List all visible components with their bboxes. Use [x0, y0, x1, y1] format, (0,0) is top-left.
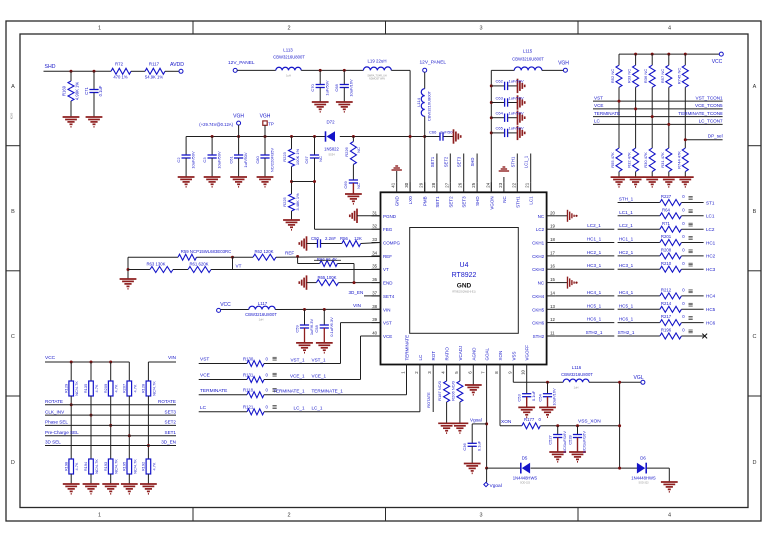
svg-text:Vgoal: Vgoal [470, 418, 482, 423]
svg-text:NC/220F/35V: NC/220F/35V [269, 148, 274, 173]
svg-text:26: 26 [458, 182, 463, 187]
svg-text:R121: R121 [243, 405, 254, 410]
svg-text:VCE_1: VCE_1 [312, 373, 327, 378]
svg-text:C54: C54 [537, 394, 542, 402]
svg-text:NC/1uF/16V: NC/1uF/16V [582, 431, 587, 453]
svg-text:NC: NC [356, 147, 361, 153]
svg-text:R210: R210 [661, 261, 672, 266]
svg-text:LC: LC [594, 119, 601, 124]
svg-text:R55 47K: R55 47K [610, 152, 615, 168]
svg-text:CLK_INV: CLK_INV [45, 409, 65, 414]
svg-text:REF: REF [285, 251, 294, 256]
svg-text:CKH6: CKH6 [532, 321, 545, 326]
svg-text:2.2nF: 2.2nF [325, 236, 336, 241]
svg-text:C70: C70 [310, 84, 315, 92]
svg-text:CBW3216U800T: CBW3216U800T [427, 90, 432, 121]
svg-text:PGND: PGND [383, 214, 397, 219]
svg-text:R196: R196 [661, 328, 672, 333]
svg-text:B: B [753, 209, 757, 215]
svg-text:VSS: VSS [511, 351, 516, 360]
svg-text:LC2: LC2 [536, 227, 545, 232]
svg-text:R225: R225 [282, 196, 287, 206]
svg-text:TP: TP [268, 121, 274, 126]
svg-text:NC/4.7K: NC/4.7K [114, 459, 119, 474]
svg-text:C63: C63 [496, 95, 504, 100]
svg-text:30: 30 [404, 182, 409, 187]
svg-text:R117: R117 [149, 62, 160, 67]
svg-text:1uF/50V: 1uF/50V [324, 80, 329, 95]
svg-text:GOAL: GOAL [485, 347, 490, 360]
svg-text:TERMINATE: TERMINATE [405, 335, 410, 361]
svg-text:1uF/50V: 1uF/50V [509, 95, 524, 100]
svg-text:R128: R128 [141, 384, 146, 393]
svg-text:R169: R169 [62, 85, 67, 96]
svg-text:CKH2: CKH2 [532, 254, 545, 259]
svg-text:27: 27 [444, 182, 449, 187]
svg-text:D72: D72 [326, 120, 335, 125]
svg-text:C: C [753, 334, 757, 340]
svg-text:12: 12 [550, 317, 555, 322]
svg-text:4.99K 1%: 4.99K 1% [75, 82, 80, 100]
svg-text:Phase SEL: Phase SEL [45, 420, 68, 425]
svg-text:VGH: VGH [260, 114, 271, 120]
svg-text:LC1: LC1 [706, 214, 715, 219]
svg-text:0.1uF: 0.1uF [98, 85, 103, 96]
svg-text:HC5: HC5 [706, 307, 716, 312]
svg-text:28: 28 [431, 182, 436, 187]
svg-text:LC2: LC2 [706, 227, 715, 232]
svg-text:VST_1: VST_1 [290, 357, 304, 362]
svg-text:4: 4 [668, 513, 671, 519]
svg-text:23: 23 [498, 182, 503, 187]
svg-text:STH_1: STH_1 [619, 197, 634, 202]
svg-text:DP_sel: DP_sel [708, 134, 723, 139]
svg-text:C3: C3 [202, 157, 207, 163]
svg-text:C80: C80 [255, 156, 260, 164]
svg-text:1uF/50: 1uF/50 [440, 130, 453, 135]
svg-text:R30 47K: R30 47K [643, 152, 648, 168]
svg-text:SET3: SET3 [165, 409, 177, 414]
svg-text:R56: R56 [340, 236, 348, 241]
svg-text:VST: VST [200, 357, 209, 363]
svg-text:R744 47K: R744 47K [676, 151, 681, 169]
svg-text:SHD: SHD [45, 64, 56, 70]
svg-text:LC2_1: LC2_1 [587, 223, 601, 228]
svg-text:VGOFF: VGOFF [525, 345, 530, 361]
svg-text:C61: C61 [229, 156, 234, 164]
svg-text:STH2_1: STH2_1 [586, 330, 603, 335]
svg-text:CKH5: CKH5 [532, 307, 545, 312]
svg-text:HC6: HC6 [706, 320, 716, 325]
svg-text:18: 18 [550, 237, 555, 242]
svg-text:VST_TCON1: VST_TCON1 [696, 95, 724, 100]
svg-text:R59 NCP15WL683E03RC: R59 NCP15WL683E03RC [181, 249, 231, 254]
svg-text:40: 40 [372, 331, 377, 336]
svg-text:HC2_1: HC2_1 [619, 250, 634, 255]
svg-text:3: 3 [479, 513, 482, 519]
svg-text:VGON: VGON [489, 196, 494, 209]
svg-text:LC: LC [418, 354, 423, 361]
svg-text:SET1: SET1 [165, 430, 177, 435]
svg-text:39: 39 [372, 317, 377, 322]
svg-text:C53: C53 [517, 394, 522, 402]
svg-text:R745 NC: R745 NC [676, 68, 681, 85]
svg-text:VCE: VCE [594, 103, 603, 108]
svg-text:C50: C50 [311, 236, 319, 241]
svg-text:NC: NC [502, 196, 507, 203]
svg-text:NC/4.7K: NC/4.7K [132, 459, 137, 474]
svg-text:25: 25 [471, 182, 476, 187]
svg-text:CBW3216U800T: CBW3216U800T [512, 57, 544, 62]
svg-text:HC2: HC2 [706, 254, 716, 259]
svg-text:R187 NC/0: R187 NC/0 [437, 380, 442, 401]
svg-text:12V_PANEL: 12V_PANEL [228, 60, 255, 66]
svg-text:R212: R212 [661, 288, 672, 293]
svg-text:R207: R207 [122, 384, 127, 393]
svg-text:1uH: 1uH [574, 386, 579, 390]
svg-text:10uF/16V: 10uF/16V [552, 388, 557, 406]
svg-text:D: D [753, 460, 757, 466]
svg-text:HC2_1: HC2_1 [587, 250, 602, 255]
svg-text:STH1: STH1 [510, 156, 515, 167]
svg-text:R71: R71 [662, 221, 670, 226]
svg-text:XON: XON [498, 351, 503, 361]
svg-text:ROT: ROT [431, 351, 436, 361]
svg-text:CBW3216U800T: CBW3216U800T [245, 312, 277, 317]
svg-text:15: 15 [550, 277, 555, 282]
svg-text:HC4: HC4 [706, 294, 716, 299]
svg-text:C66: C66 [429, 130, 437, 135]
svg-text:R31 47K: R31 47K [660, 152, 665, 168]
svg-text:470 1%: 470 1% [113, 75, 127, 80]
svg-text:C69: C69 [343, 181, 348, 189]
svg-text:SET1: SET1 [435, 196, 440, 208]
svg-text:10: 10 [521, 370, 526, 375]
svg-text:R135: R135 [83, 384, 88, 393]
svg-text:COMPG: COMPG [383, 241, 401, 246]
svg-text:L19 22uH: L19 22uH [367, 59, 386, 64]
svg-text:AVDD: AVDD [170, 62, 184, 68]
svg-text:C65: C65 [496, 126, 504, 131]
svg-text:PMB: PMB [423, 196, 428, 206]
svg-text:VIN: VIN [168, 355, 177, 361]
svg-text:NC/4.7K: NC/4.7K [94, 459, 99, 474]
svg-text:VT: VT [236, 264, 242, 269]
svg-text:R65 100K: R65 100K [317, 275, 336, 280]
svg-text:LC: LC [200, 405, 207, 411]
svg-text:C2: C2 [176, 157, 181, 163]
svg-text:CBW3216U800T: CBW3216U800T [273, 55, 305, 60]
svg-text:HC4_1: HC4_1 [619, 290, 634, 295]
svg-text:LC1_1: LC1_1 [619, 210, 633, 215]
svg-text:3D_EN: 3D_EN [349, 290, 364, 295]
svg-text:SET2: SET2 [443, 156, 448, 167]
svg-text:R62 120K: R62 120K [254, 249, 273, 254]
svg-text:R130: R130 [243, 356, 254, 361]
svg-text:41: 41 [391, 182, 396, 187]
svg-text:VT: VT [383, 267, 389, 272]
svg-text:VSS_XON: VSS_XON [578, 419, 601, 425]
svg-text:LC_1: LC_1 [312, 406, 323, 411]
svg-text:STH2: STH2 [533, 334, 545, 339]
svg-text:0.1uF/6.3V: 0.1uF/6.3V [329, 317, 334, 337]
svg-text:35: 35 [372, 264, 377, 269]
svg-text:R227: R227 [661, 194, 672, 199]
svg-text:R66 66.4K: R66 66.4K [317, 257, 337, 262]
svg-text:ST1: ST1 [706, 200, 715, 205]
svg-text:TERMINATE_1: TERMINATE_1 [312, 389, 344, 394]
svg-text:R193: R193 [103, 462, 108, 471]
svg-text:0.1uF: 0.1uF [531, 390, 536, 401]
svg-text:VIN: VIN [383, 307, 391, 312]
svg-text:NC: NC [538, 281, 545, 286]
svg-text:C: C [11, 334, 15, 340]
svg-text:C528: C528 [567, 434, 572, 444]
svg-text:2: 2 [287, 26, 290, 32]
svg-text:C71: C71 [84, 86, 89, 94]
svg-text:VCE_TCON5: VCE_TCON5 [695, 103, 723, 108]
svg-text:L117: L117 [258, 301, 268, 306]
svg-text:10uF/50V: 10uF/50V [216, 151, 221, 169]
svg-text:AGND: AGND [471, 347, 476, 361]
svg-text:10uF/50V: 10uF/50V [190, 151, 195, 169]
svg-text:R217: R217 [661, 314, 672, 319]
svg-text:CKH1: CKH1 [532, 241, 545, 246]
svg-text:20: 20 [550, 210, 555, 215]
svg-text:1: 1 [98, 513, 101, 519]
svg-text:C59: C59 [294, 325, 299, 333]
svg-text:VCE: VCE [200, 373, 210, 379]
svg-text:1N4448HWS: 1N4448HWS [631, 476, 656, 481]
svg-text:RATIO: RATIO [445, 347, 450, 361]
svg-text:54.9K 1%: 54.9K 1% [145, 75, 163, 80]
svg-text:R223: R223 [282, 151, 287, 161]
svg-text:1uF/50V: 1uF/50V [243, 152, 248, 167]
svg-text:Vgoal: Vgoal [490, 483, 502, 489]
svg-text:3.48K 1%: 3.48K 1% [295, 193, 300, 211]
svg-text:LC1: LC1 [529, 196, 534, 205]
svg-text:HC4_1: HC4_1 [587, 290, 602, 295]
svg-text:B: B [11, 209, 15, 215]
svg-text:LC_TCON7: LC_TCON7 [699, 119, 723, 124]
svg-text:R52 NC: R52 NC [610, 69, 615, 83]
svg-text:R33 NC: R33 NC [627, 69, 632, 83]
svg-text:D: D [11, 460, 15, 466]
svg-text:SOD-323: SOD-323 [520, 481, 531, 484]
svg-text:RT8922GQW(5-6-E1): RT8922GQW(5-6-E1) [452, 291, 475, 294]
svg-text:SET3: SET3 [457, 156, 462, 167]
svg-text:SOD-323: SOD-323 [639, 481, 650, 484]
svg-text:R226: R226 [344, 146, 349, 156]
svg-text:TERMINATE: TERMINATE [200, 388, 227, 394]
svg-text:33: 33 [372, 237, 377, 242]
svg-text:HC3_1: HC3_1 [619, 263, 634, 268]
svg-text:ROTATE: ROTATE [158, 399, 176, 404]
svg-text:CKH4: CKH4 [532, 294, 545, 299]
svg-text:37: 37 [372, 290, 377, 295]
svg-text:SHD: SHD [475, 196, 480, 206]
svg-text:R57 NC: R57 NC [660, 69, 665, 83]
svg-text:4: 4 [668, 26, 671, 32]
svg-text:VST_1: VST_1 [312, 357, 326, 362]
svg-text:21: 21 [525, 182, 530, 187]
svg-text:3D SEL: 3D SEL [45, 440, 61, 445]
svg-text:16: 16 [550, 264, 555, 269]
svg-text:NC/4.7K: NC/4.7K [151, 381, 156, 396]
svg-text:C67: C67 [304, 156, 309, 164]
svg-text:VCADJ: VCADJ [458, 346, 463, 361]
svg-text:HC1_1: HC1_1 [587, 237, 602, 242]
svg-text:LC_1: LC_1 [294, 406, 305, 411]
svg-text:ROTATE: ROTATE [45, 399, 63, 404]
svg-text:VCC: VCC [712, 59, 723, 65]
svg-text:FBG: FBG [383, 227, 393, 232]
svg-text:HC5_1: HC5_1 [619, 303, 634, 308]
svg-text:HC6_1: HC6_1 [587, 317, 602, 322]
svg-text:TERMINATE: TERMINATE [594, 111, 620, 116]
svg-text:31: 31 [372, 210, 377, 215]
svg-text:REF: REF [383, 254, 392, 259]
svg-text:L114: L114 [416, 97, 421, 106]
svg-text:HC1_1: HC1_1 [619, 237, 634, 242]
svg-text:L115: L115 [523, 49, 533, 54]
svg-text:32: 32 [372, 224, 377, 229]
svg-text:29: 29 [419, 182, 424, 187]
svg-text:24: 24 [485, 182, 490, 187]
svg-text:2: 2 [287, 513, 290, 519]
svg-text:VCE: VCE [383, 334, 392, 339]
svg-text:4.7K: 4.7K [74, 462, 79, 470]
svg-text:(+29.74V@0.12A): (+29.74V@0.12A) [199, 122, 233, 127]
svg-text:C62: C62 [496, 79, 504, 84]
svg-text:L113: L113 [283, 48, 293, 53]
svg-text:3D_EN: 3D_EN [161, 440, 176, 445]
svg-text:VGL: VGL [633, 375, 643, 381]
svg-text:LC2_1: LC2_1 [619, 223, 633, 228]
svg-text:A: A [11, 84, 15, 90]
svg-text:ROTATE: ROTATE [426, 392, 431, 408]
svg-text:R36 NC: R36 NC [643, 69, 648, 83]
svg-text:1N5822: 1N5822 [324, 147, 339, 152]
svg-text:STH1: STH1 [515, 196, 520, 208]
svg-text:NC/4.7K: NC/4.7K [74, 381, 79, 396]
svg-text:HC6_1: HC6_1 [619, 317, 634, 322]
svg-text:10uF/16V: 10uF/16V [348, 79, 353, 97]
svg-text:R177: R177 [524, 417, 535, 422]
svg-text:R131: R131 [243, 372, 254, 377]
svg-text:U4: U4 [460, 262, 469, 269]
svg-text:1uH: 1uH [259, 318, 264, 322]
svg-text:4.7K: 4.7K [132, 384, 137, 392]
svg-text:VGH: VGH [558, 61, 569, 67]
svg-text:NC/1uF/16V: NC/1uF/16V [562, 431, 567, 453]
svg-text:1uF/50V: 1uF/50V [509, 126, 524, 131]
svg-text:A: A [753, 84, 757, 90]
svg-text:SHD: SHD [470, 158, 475, 167]
svg-text:34: 34 [372, 250, 377, 255]
svg-text:KD50: KD50 [10, 112, 14, 119]
svg-text:GND: GND [395, 196, 400, 207]
svg-text:D6: D6 [640, 456, 646, 461]
svg-text:NC: NC [538, 214, 545, 219]
svg-text:CKH3: CKH3 [532, 267, 545, 272]
svg-text:END: END [383, 281, 393, 286]
svg-text:1: 1 [98, 26, 101, 32]
svg-text:HC1: HC1 [706, 240, 716, 245]
svg-text:38: 38 [372, 304, 377, 309]
svg-text:SET1: SET1 [430, 156, 435, 167]
svg-text:R198: R198 [63, 462, 68, 471]
svg-text:L116: L116 [572, 365, 582, 370]
svg-text:R61 620K: R61 620K [189, 261, 208, 266]
svg-text:D5: D5 [522, 456, 528, 461]
svg-text:HC3: HC3 [706, 267, 716, 272]
svg-text:100K 1%: 100K 1% [295, 148, 300, 165]
svg-text:1uF/50V: 1uF/50V [509, 111, 524, 116]
svg-text:R194: R194 [83, 461, 88, 471]
svg-text:C58: C58 [314, 325, 319, 333]
svg-text:14: 14 [550, 290, 555, 295]
svg-text:GND: GND [457, 283, 472, 290]
svg-text:R72: R72 [115, 62, 124, 67]
svg-text:1uH: 1uH [286, 74, 291, 78]
svg-text:19: 19 [550, 224, 555, 229]
svg-text:NDMOST WIN: NDMOST WIN [369, 78, 385, 81]
svg-text:R208: R208 [661, 248, 672, 253]
svg-text:36: 36 [372, 277, 377, 282]
svg-text:4.7K: 4.7K [94, 384, 99, 392]
svg-text:XON: XON [501, 419, 512, 425]
svg-text:TERMINATE_TCON8: TERMINATE_TCON8 [678, 111, 723, 116]
svg-text:R64: R64 [662, 207, 670, 212]
svg-text:HC5_1: HC5_1 [587, 303, 602, 308]
svg-text:HC3_1: HC3_1 [587, 263, 602, 268]
svg-text:12K: 12K [354, 236, 362, 241]
svg-text:VIN: VIN [353, 303, 362, 309]
svg-text:SET2: SET2 [448, 196, 453, 208]
svg-text:1uF/50V: 1uF/50V [509, 79, 524, 84]
svg-text:4.7K: 4.7K [151, 462, 156, 470]
svg-text:SET4: SET4 [383, 294, 395, 299]
svg-text:R63 130K: R63 130K [146, 261, 165, 266]
svg-text:C36: C36 [462, 443, 467, 451]
svg-text:VST: VST [594, 95, 603, 100]
svg-text:VCC: VCC [45, 355, 56, 361]
svg-text:R214: R214 [661, 301, 672, 306]
svg-text:R192: R192 [141, 462, 146, 471]
svg-text:SS34: SS34 [328, 153, 335, 157]
svg-text:R209: R209 [103, 384, 108, 393]
svg-text:RT8922: RT8922 [452, 272, 477, 279]
svg-text:R201: R201 [661, 234, 672, 239]
svg-text:SET3: SET3 [462, 196, 467, 208]
svg-text:CBW3216U800T: CBW3216U800T [561, 372, 593, 377]
svg-text:R118: R118 [243, 388, 254, 393]
svg-text:SET2: SET2 [165, 420, 177, 425]
svg-text:1N4448HWS: 1N4448HWS [513, 476, 538, 481]
svg-text:C68: C68 [334, 84, 339, 92]
svg-text:R195: R195 [122, 462, 127, 471]
svg-text:STH2_1: STH2_1 [618, 330, 635, 335]
svg-text:R206 NC/0: R206 NC/0 [450, 380, 455, 401]
svg-text:3: 3 [479, 26, 482, 32]
svg-text:0.1uF: 0.1uF [476, 440, 481, 451]
svg-text:12V_PANEL: 12V_PANEL [420, 60, 447, 66]
svg-text:R32 47K: R32 47K [627, 152, 632, 168]
svg-text:LX0: LX0 [408, 196, 413, 205]
svg-text:R129: R129 [63, 384, 68, 393]
svg-text:Pre-Charge SEL: Pre-Charge SEL [45, 430, 79, 435]
